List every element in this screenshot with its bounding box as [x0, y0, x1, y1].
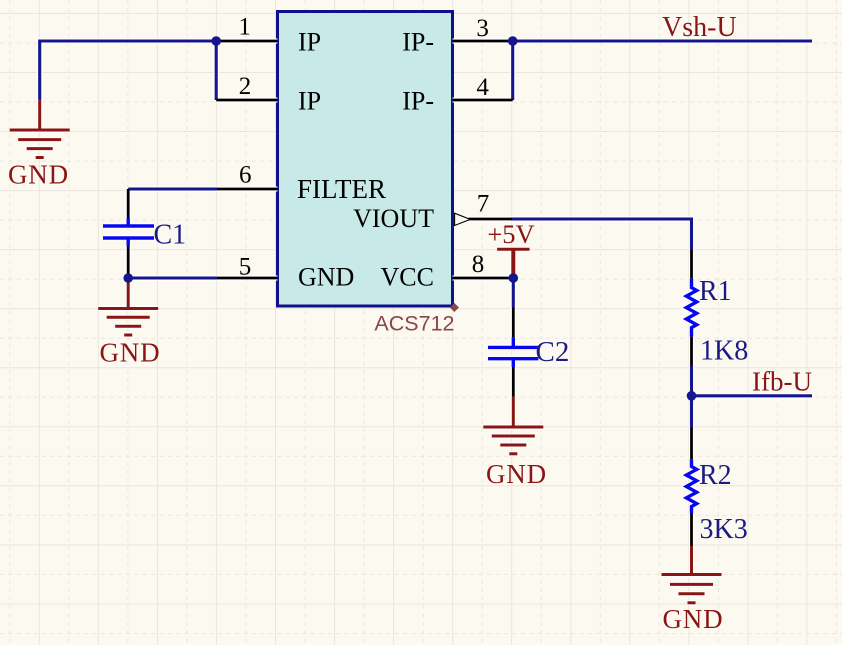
svg-text:VCC: VCC	[381, 263, 434, 292]
svg-text:IP-: IP-	[402, 28, 434, 57]
svg-text:FILTER: FILTER	[297, 174, 386, 204]
svg-text:Vsh-U: Vsh-U	[662, 12, 737, 43]
svg-text:C1: C1	[154, 220, 187, 251]
svg-text:2: 2	[239, 73, 252, 100]
svg-text:IP: IP	[298, 28, 321, 57]
svg-text:6: 6	[239, 162, 252, 189]
svg-text:7: 7	[477, 190, 490, 217]
svg-text:4: 4	[476, 74, 489, 101]
svg-text:R1: R1	[699, 276, 732, 307]
svg-text:ACS712: ACS712	[374, 312, 454, 336]
svg-text:R2: R2	[699, 460, 732, 491]
svg-text:5: 5	[239, 253, 252, 280]
svg-text:3K3: 3K3	[700, 514, 748, 545]
svg-text:GND: GND	[8, 160, 69, 190]
svg-text:GND: GND	[663, 604, 724, 634]
svg-text:1: 1	[238, 14, 251, 41]
svg-text:GND: GND	[486, 459, 547, 489]
svg-text:IP: IP	[298, 87, 321, 116]
svg-text:+5V: +5V	[487, 219, 534, 249]
svg-text:Ifb-U: Ifb-U	[752, 367, 812, 397]
svg-text:IP-: IP-	[402, 87, 434, 116]
svg-text:GND: GND	[100, 338, 161, 368]
svg-text:1K8: 1K8	[700, 336, 748, 367]
svg-text:3: 3	[476, 15, 489, 42]
svg-text:8: 8	[472, 251, 485, 278]
svg-text:GND: GND	[298, 263, 354, 292]
svg-text:C2: C2	[536, 336, 570, 368]
svg-text:VIOUT: VIOUT	[353, 204, 434, 233]
